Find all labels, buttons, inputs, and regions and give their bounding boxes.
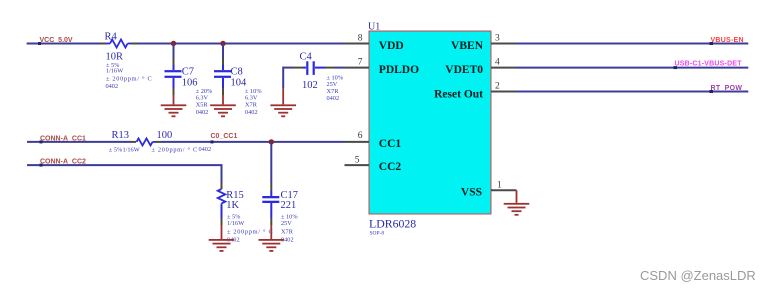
R13 parameters [109, 146, 211, 153]
svg-text:104: 104 [231, 78, 248, 89]
svg-text:25V: 25V [281, 220, 292, 227]
pin 1 stub [491, 189, 517, 191]
net label anchor tick CONN-A_CC1 [40, 140, 43, 143]
svg-text:6: 6 [358, 131, 363, 141]
svg-text:USB-C1-VBUS-DET: USB-C1-VBUS-DET [675, 60, 743, 67]
svg-text:1/16W: 1/16W [123, 146, 140, 153]
svg-text:C0_CC1: C0_CC1 [211, 133, 238, 140]
C4 parameters [327, 74, 344, 102]
wire VBUS-EN [517, 43, 749, 45]
svg-text:SOP-8: SOP-8 [370, 230, 385, 236]
svg-text:4: 4 [495, 58, 500, 68]
svg-text:C4: C4 [300, 52, 313, 63]
svg-text:1/16W: 1/16W [227, 220, 244, 227]
C17 parameters [281, 213, 298, 243]
svg-text:± 200ppm/ ° C: ± 200ppm/ ° C [152, 146, 198, 153]
wire USB-C1-VBUS-DET [517, 67, 749, 69]
svg-text:CC1: CC1 [379, 138, 402, 150]
svg-text:221: 221 [281, 200, 297, 211]
svg-text:1K: 1K [226, 200, 239, 211]
ground under C17 [259, 225, 285, 252]
svg-text:6.3V: 6.3V [196, 95, 209, 102]
net label anchor tick USB-C1-VBUS-DET [674, 66, 678, 69]
svg-text:106: 106 [182, 78, 198, 89]
svg-text:0402: 0402 [196, 109, 209, 116]
svg-text:2: 2 [495, 82, 500, 92]
svg-text:C7: C7 [182, 66, 194, 77]
ground under C8 [210, 95, 236, 117]
R15 parameters [227, 213, 273, 243]
svg-text:± 200ppm/ ° C: ± 200ppm/ ° C [227, 228, 273, 235]
pin 7 stub [344, 67, 369, 69]
svg-text:0402: 0402 [245, 109, 258, 116]
svg-text:CONN-A_CC1: CONN-A_CC1 [40, 135, 86, 142]
svg-text:VSS: VSS [461, 187, 482, 199]
resistor R4 [100, 40, 137, 48]
resistor R13 [131, 138, 161, 145]
svg-text:8: 8 [358, 34, 363, 44]
resistor R15 [218, 183, 226, 225]
pin 5 stub [345, 164, 370, 166]
capacitor C8 [214, 70, 231, 95]
junction at C7 [171, 41, 176, 46]
net label anchor tick CONN-A_CC2 [40, 164, 43, 167]
ground under C7 [161, 95, 187, 117]
svg-text:1: 1 [497, 181, 502, 191]
ground under R15 [209, 225, 235, 252]
svg-text:VBEN: VBEN [451, 40, 484, 52]
pin 2 stub [491, 91, 517, 93]
pin 6 stub [344, 141, 369, 143]
svg-text:6.3V: 6.3V [245, 95, 258, 102]
wire RT_POW [517, 91, 749, 93]
C8 parameters [245, 88, 262, 116]
net label anchor tick VCC_5.0V [38, 42, 41, 45]
svg-text:PDLDO: PDLDO [379, 64, 419, 76]
svg-text:102: 102 [302, 80, 318, 91]
svg-text:CONN-A_CC2: CONN-A_CC2 [40, 159, 86, 166]
svg-text:X5R: X5R [196, 102, 209, 109]
svg-text:RT_POW: RT_POW [711, 85, 743, 92]
svg-text:7: 7 [358, 58, 363, 68]
capacitor C7 [165, 70, 182, 95]
pin 8 stub [344, 43, 369, 45]
svg-text:5: 5 [355, 156, 360, 166]
svg-text:0402: 0402 [327, 95, 340, 102]
svg-text:1/16W: 1/16W [106, 68, 123, 75]
svg-text:C8: C8 [231, 66, 243, 77]
R4 parameters [106, 62, 153, 90]
net label anchor tick RT_POW [710, 90, 714, 93]
svg-text:R13: R13 [112, 130, 130, 141]
svg-text:± 200ppm/ ° C: ± 200ppm/ ° C [106, 76, 152, 83]
ground under C4 [270, 88, 296, 117]
wire C7 vertical [173, 44, 175, 71]
svg-text:X7R: X7R [281, 228, 294, 235]
wire C4 left down [282, 67, 284, 88]
svg-text:10R: 10R [106, 52, 124, 63]
wire CC1 from R13 to U1 pin 6 [161, 141, 344, 143]
svg-text:CSDN @ZenasLDR: CSDN @ZenasLDR [640, 268, 756, 283]
C7 parameters [196, 88, 213, 116]
svg-text:100: 100 [157, 130, 173, 141]
svg-text:25V: 25V [327, 81, 338, 88]
svg-text:± 5%: ± 5% [109, 146, 123, 153]
pin 4 stub [491, 67, 517, 69]
svg-text:0402: 0402 [106, 83, 119, 90]
svg-text:X7R: X7R [245, 102, 258, 109]
ground at VSS pin 1 [504, 190, 530, 215]
svg-text:3: 3 [495, 34, 500, 44]
svg-text:U1: U1 [368, 22, 380, 33]
wire CONN-A_CC2 [27, 165, 222, 183]
wire VCC_5.0V left segment [27, 43, 100, 45]
svg-text:VCC_5.0V: VCC_5.0V [40, 37, 73, 44]
op-amp U1 body [369, 31, 491, 214]
capacitor C4 with wires [283, 61, 344, 75]
wire C17 vertical [270, 142, 272, 196]
svg-text:CC2: CC2 [379, 161, 402, 173]
capacitor C17 [262, 196, 279, 225]
svg-text:X7R: X7R [327, 88, 340, 95]
svg-text:Reset Out: Reset Out [434, 88, 483, 100]
junction at C17 [269, 139, 274, 144]
svg-text:R4: R4 [105, 32, 118, 43]
wire C8 vertical [222, 44, 224, 71]
svg-text:VDD: VDD [379, 40, 404, 52]
wire VCC from R4 to U1 pin 8 [137, 43, 344, 45]
wire CONN-A_CC1 left segment [27, 141, 131, 143]
net label anchor tick VBUS-EN [710, 42, 714, 45]
svg-text:VBUS-EN: VBUS-EN [711, 37, 744, 44]
svg-text:VDET0: VDET0 [445, 64, 483, 76]
net label anchor tick C0_CC1 [211, 140, 214, 143]
junction at C8 [220, 41, 225, 46]
svg-text:LDR6028: LDR6028 [369, 216, 416, 230]
pin 3 stub [491, 43, 517, 45]
svg-text:0402: 0402 [199, 146, 212, 153]
